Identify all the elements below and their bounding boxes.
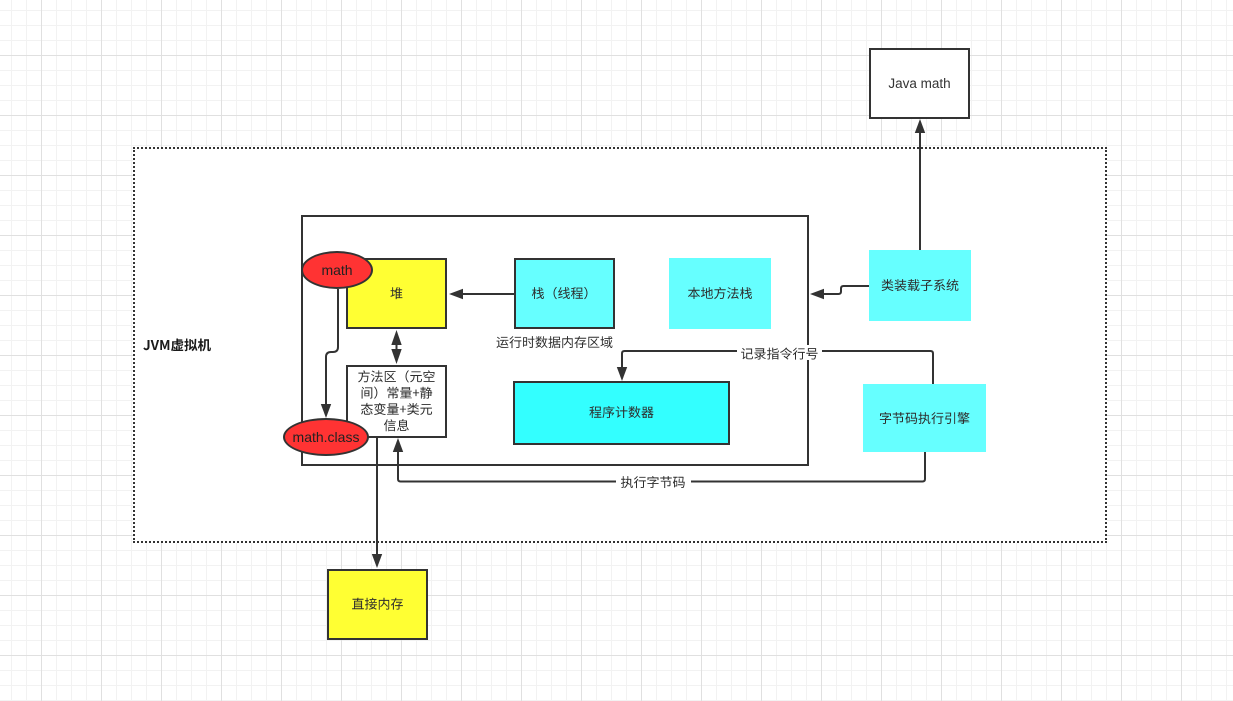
label: 方法区（元空间）常量+静态变量+类元信息 (method area text, 4 lines) <box>358 370 435 431</box>
wire: 字节码执行引擎 bottom to 方法区 bottom 执行字节码 (arrow up) <box>393 438 925 482</box>
ellipse: math (red) <box>301 251 373 289</box>
label: 本地方法栈 (native method stack text) <box>688 287 752 299</box>
wire: math ellipse to math.class ellipse (arrow down) <box>321 289 338 418</box>
box: 本地方法栈 (native method stack, cyan, no border) <box>669 258 771 329</box>
wire: 堆 and 方法区 double arrow <box>391 330 401 364</box>
label: 记录指令行号 (on wire, white backed) <box>737 345 822 360</box>
wire: 字节码执行引擎 top to 程序计数器 top 记录指令行号 (arrow down) <box>617 351 933 384</box>
label: 运行时数据内存区域 <box>497 336 613 348</box>
box: 类装载子系统 (classloader subsystem, cyan, no border) <box>869 250 971 321</box>
wire: 类装载子系统 top to Java math bottom (arrow up) <box>915 119 925 250</box>
box: 栈（线程） (stack, cyan, bordered) <box>514 258 615 329</box>
wire: 方法区 bottom to 直接内存 (arrow down) <box>372 438 382 568</box>
box: 字节码执行引擎 (bytecode execution engine, cyan, no border) <box>863 384 986 452</box>
label: 直接内存 (direct memory text) <box>352 598 403 610</box>
box: 直接内存 (direct memory, yellow) <box>327 569 428 640</box>
box: 方法区 (method area, white, bordered) <box>346 365 447 438</box>
label: JVM虚拟机 <box>143 339 211 352</box>
box: Java math <box>869 48 970 119</box>
ellipse: math.class (red) <box>283 418 369 456</box>
inner runtime data area rectangle <box>301 215 809 466</box>
label: 执行字节码 (on wire, white backed) <box>616 474 691 489</box>
wire: 类装载子系统 left to inner rect right edge (arrow left) <box>810 286 869 299</box>
outer dotted container: JVM virtual machine boundary <box>133 147 1107 543</box>
wire: 栈（线程） to 堆 (arrow left) <box>449 289 514 299</box>
label: 堆 (heap box text) <box>390 287 402 299</box>
box: 程序计数器 (program counter, bright cyan, bordered) <box>513 381 730 445</box>
label: 程序计数器 (program counter text) <box>589 406 653 418</box>
box: 堆 (heap, yellow) <box>346 258 447 329</box>
label: 类装载子系统 (classloader subsystem text) <box>882 279 959 291</box>
label: 栈（线程） (stack box text) <box>532 287 588 299</box>
label: 字节码执行引擎 (bytecode execution engine text) <box>880 412 970 424</box>
